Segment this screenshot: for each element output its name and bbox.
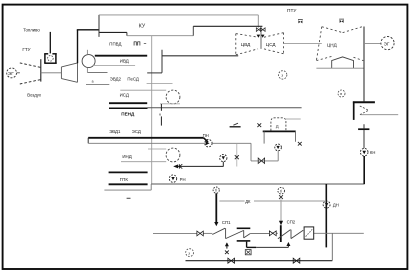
condenser outlet: [358, 124, 369, 148]
combustion chamber КС: [44, 53, 56, 63]
deaerator Д: [263, 118, 301, 144]
wire ПеСД outlet: [147, 83, 173, 85]
svg-text:ПеСД: ПеСД: [127, 77, 138, 82]
generator ЭГ1 (gas turbine): [7, 68, 20, 78]
aux pump near deaerator: [220, 154, 227, 166]
small valve above ЦНД: [339, 19, 344, 23]
condensate wire to ГПК: [104, 184, 364, 190]
svg-text:в: в: [340, 92, 342, 96]
network water wire: [153, 232, 364, 234]
drain up-arrow under СП1: [225, 242, 229, 254]
recirculation wire to ИНД with arrow к: [173, 164, 223, 168]
closed valve х right of deaerator: [298, 142, 302, 146]
cold reheat wire: [147, 50, 238, 73]
turbine end wire: [363, 27, 365, 102]
svg-text:ЭГ: ЭГ: [384, 41, 390, 46]
IP drum: [120, 90, 180, 104]
LP drum: [121, 148, 180, 162]
svg-text:СП1: СП1: [222, 220, 231, 225]
valve between СП1 and СП2: [269, 231, 276, 236]
deaerator outlet valve: [275, 144, 282, 161]
svg-text:ЦНД: ЦНД: [327, 42, 338, 47]
svg-text:ЭГ: ЭГ: [8, 71, 14, 76]
svg-text:ЭВД2: ЭВД2: [110, 77, 122, 82]
admission pipe wire: [260, 32, 262, 49]
drum downcomer wire: [87, 72, 107, 74]
extraction 6 to СП2: [278, 187, 285, 242]
shaft wire: [41, 72, 62, 74]
svg-text:ППВД: ППВД: [109, 42, 121, 47]
exhaust hood: [332, 57, 354, 68]
ГПК surface box: [109, 172, 148, 184]
svg-text:ПЕНД: ПЕНД: [121, 112, 135, 117]
svg-text:ЦСД: ЦСД: [266, 42, 277, 47]
gas turbine ГТ: [61, 63, 77, 82]
svg-text:а: а: [92, 79, 94, 83]
generator ЭГ2: [381, 37, 394, 50]
node 5 mark: [186, 249, 194, 257]
svg-text:к: к: [159, 112, 161, 117]
valve on return wire 2: [293, 258, 300, 263]
hot reheat wire: [127, 26, 263, 35]
svg-text:ИВД: ИВД: [120, 58, 129, 63]
stop valves of HP admission: [256, 28, 265, 32]
svg-text:ПТУ: ПТУ: [287, 8, 297, 14]
crossover wire ЦСД-ЦНД: [284, 43, 322, 45]
HRSG duct wall: [77, 30, 127, 63]
svg-text:Воздух: Воздух: [27, 92, 42, 97]
svg-text:ГПК: ГПК: [120, 177, 129, 182]
heater СП2: [278, 220, 314, 240]
svg-text:ГТУ: ГТУ: [22, 47, 30, 52]
svg-text:ПН: ПН: [203, 133, 209, 138]
svg-text:ИНД: ИНД: [122, 154, 131, 159]
IP steam wire: [109, 107, 302, 109]
return network wire: [186, 233, 333, 260]
wire to deaerator к: [159, 104, 164, 126]
svg-text:б: б: [215, 189, 217, 193]
drain pump ДН: [323, 184, 339, 247]
svg-text:ЦВД: ЦВД: [241, 42, 251, 47]
svg-text:Топливо: Топливо: [23, 27, 40, 32]
tick mark: [127, 197, 131, 199]
svg-text:КН: КН: [370, 150, 375, 155]
feed pump ПН: [203, 133, 212, 147]
svg-text:ИСД: ИСД: [120, 93, 129, 98]
feedwater wire: [88, 138, 208, 144]
recirculation pump РН: [169, 175, 185, 182]
compressor K: [20, 59, 41, 84]
evaporator ИВД surface: [95, 55, 147, 57]
condenser K: [353, 101, 398, 120]
generator wire: [364, 43, 380, 45]
downcomer wire (boiler internal vertical): [151, 36, 153, 184]
heater СП1: [212, 220, 256, 248]
node 2 (extraction mark): [279, 71, 287, 79]
svg-text:б: б: [280, 189, 282, 193]
svg-text:КУ: КУ: [139, 23, 146, 29]
control valves: [257, 35, 265, 38]
closed valve х left of deaerator: [257, 123, 261, 127]
valve on return wire 1: [228, 258, 235, 263]
valve on suction wire: [258, 158, 264, 163]
turbine ЦНД: [316, 27, 363, 61]
svg-text:ПП: ПП: [133, 41, 141, 47]
node 8 (extraction mark): [338, 90, 345, 97]
fuel wire: [49, 32, 51, 54]
economizer row wire a: [86, 79, 109, 84]
svg-text:ЭСД: ЭСД: [132, 129, 141, 134]
HP drum: [82, 50, 95, 73]
main steam wire (HP): [99, 15, 258, 37]
closed valve х on drop wire: [235, 143, 239, 166]
svg-text:Д: Д: [276, 123, 279, 128]
pump suction wire: [212, 143, 278, 161]
svg-text:РН: РН: [180, 177, 186, 182]
drain wire ДК: [219, 198, 324, 204]
valve before СП1: [197, 231, 203, 236]
svg-text:ДН: ДН: [333, 202, 339, 207]
turbine ЦВД-ЦСД: [236, 33, 284, 55]
condenser top wire: [316, 67, 364, 69]
condensate pump КН: [360, 148, 375, 184]
drain wire СП1-СП2: [256, 242, 290, 247]
extraction 5 to СП1: [213, 187, 219, 226]
svg-text:СП2: СП2: [287, 220, 296, 225]
small valve above ЦСД: [298, 20, 303, 24]
reducing set symbol: [230, 123, 241, 127]
boxed valve under drain: [245, 250, 251, 255]
svg-text:ЭВД1: ЭВД1: [109, 129, 121, 134]
svg-text:ДК: ДК: [245, 199, 251, 204]
